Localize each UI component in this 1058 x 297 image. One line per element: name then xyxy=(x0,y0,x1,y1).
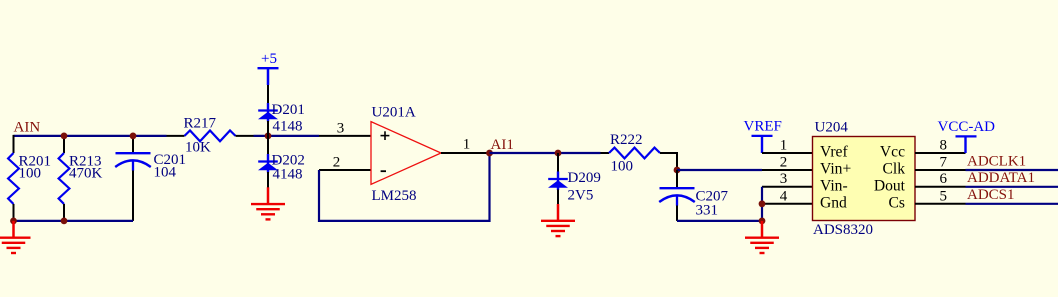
wire AIN net segment xyxy=(14,135,167,137)
svg-text:Vcc: Vcc xyxy=(880,144,905,161)
capacitor C201 bottom pin xyxy=(132,171,134,221)
svg-text:4148: 4148 xyxy=(273,167,303,183)
svg-text:Vin-: Vin- xyxy=(820,178,848,195)
svg-text:4148: 4148 xyxy=(273,118,303,134)
diode D202 xyxy=(267,154,269,173)
svg-text:7: 7 xyxy=(940,154,948,170)
svg-text:2: 2 xyxy=(780,154,788,170)
diode D201 bottom pin xyxy=(267,121,269,136)
capacitor C207 xyxy=(660,187,695,189)
chip pin 7 stub xyxy=(915,169,966,171)
power port +5 xyxy=(258,67,279,69)
ground below D209 xyxy=(557,204,560,221)
svg-text:Dout: Dout xyxy=(874,178,906,195)
junction at D209 xyxy=(555,150,562,157)
junction pin4 xyxy=(759,200,766,207)
op-amp plus sign xyxy=(381,135,390,137)
power port VCC-AD xyxy=(956,135,977,137)
svg-text:ADCLK1: ADCLK1 xyxy=(967,153,1026,169)
svg-text:6: 6 xyxy=(940,171,948,187)
diode D202 top pin xyxy=(267,136,269,155)
power port VREF xyxy=(752,135,773,137)
svg-text:VCC-AD: VCC-AD xyxy=(938,119,996,135)
wire junction to pin Vin+ xyxy=(677,169,762,171)
capacitor C201 xyxy=(116,152,151,154)
svg-text:3: 3 xyxy=(337,120,345,136)
svg-text:ADCS1: ADCS1 xyxy=(967,187,1015,203)
resistor R201 top pin xyxy=(13,135,15,153)
wire R217 to op-amp pin3 xyxy=(254,135,320,137)
svg-text:R222: R222 xyxy=(610,132,643,148)
wire VCC-AD to pin8 xyxy=(964,136,966,153)
svg-text:Gnd: Gnd xyxy=(820,195,847,212)
svg-text:331: 331 xyxy=(696,202,719,218)
resistor R213 xyxy=(59,153,70,204)
wire ADCLK1 xyxy=(966,169,1058,171)
ground at ADC xyxy=(761,221,764,238)
junction at op-amp output xyxy=(486,150,493,157)
junction gnd node xyxy=(759,218,766,225)
op-amp U201A pin 2 stub xyxy=(319,169,371,171)
svg-text:100: 100 xyxy=(19,165,42,181)
resistor R222 right pin xyxy=(660,152,677,154)
svg-text:1: 1 xyxy=(463,136,471,152)
svg-text:5: 5 xyxy=(940,188,948,204)
resistor R217 left pin xyxy=(167,135,185,137)
wire ADCS1 xyxy=(966,203,1058,205)
svg-text:2V5: 2V5 xyxy=(568,187,594,203)
wire VREF to pin1 xyxy=(761,136,763,153)
svg-text:ADS8320: ADS8320 xyxy=(813,222,873,238)
capacitor C207 top pin xyxy=(676,170,678,187)
svg-text:10K: 10K xyxy=(185,140,211,156)
IC U204 body xyxy=(813,137,916,221)
chip pin 3 stub xyxy=(762,186,813,188)
svg-text:+5: +5 xyxy=(261,51,277,67)
junction at diode column xyxy=(265,133,272,140)
wire C207 bottom to gnd node xyxy=(677,220,762,222)
diode D201 top pin xyxy=(267,85,269,104)
power +5 stub xyxy=(267,68,270,85)
junction R222/C207 xyxy=(674,167,681,174)
svg-text:ADDATA1: ADDATA1 xyxy=(967,170,1035,186)
diode D201 xyxy=(267,103,269,122)
wire ADDATA1 xyxy=(966,186,1058,188)
chip pin 6 stub xyxy=(915,186,966,188)
svg-text:D201: D201 xyxy=(272,102,305,118)
chip pin 8 stub xyxy=(915,152,966,154)
resistor R213 top pin xyxy=(63,136,65,153)
feedback wire xyxy=(319,153,490,221)
wire pin3 to pin4 to ground xyxy=(761,187,763,221)
svg-text:104: 104 xyxy=(154,165,177,181)
diode D209 zener xyxy=(557,172,559,191)
svg-text:R217: R217 xyxy=(184,115,217,131)
wire output to R222 xyxy=(490,152,601,154)
junction at R213 top xyxy=(61,133,68,140)
chip pin 2 stub xyxy=(762,169,813,171)
op-amp U201A pin 3 stub xyxy=(319,135,371,137)
svg-text:LM258: LM258 xyxy=(372,188,417,204)
svg-text:Cs: Cs xyxy=(889,195,905,212)
resistor R201 bottom pin xyxy=(13,204,15,221)
svg-text:470K: 470K xyxy=(69,165,103,181)
capacitor C201 top pin xyxy=(132,136,134,152)
svg-text:U204: U204 xyxy=(815,120,849,136)
junction at R201 bottom xyxy=(10,218,17,225)
chip pin 4 stub xyxy=(762,203,813,205)
ground left xyxy=(12,221,15,238)
op-amp output pin 1 stub xyxy=(441,152,490,154)
resistor R217 xyxy=(185,131,236,142)
svg-text:8: 8 xyxy=(940,137,948,153)
svg-text:4: 4 xyxy=(780,188,788,204)
op-amp minus sign xyxy=(381,170,386,172)
wire R222 corner down xyxy=(676,152,678,170)
diode D209 bottom pin xyxy=(557,190,559,205)
svg-text:U201A: U201A xyxy=(372,104,416,120)
svg-text:VREF: VREF xyxy=(744,119,782,135)
svg-text:Clk: Clk xyxy=(882,161,905,178)
svg-text:2: 2 xyxy=(333,155,341,171)
svg-text:D209: D209 xyxy=(568,170,601,186)
resistor R222 xyxy=(609,148,660,159)
svg-text:1: 1 xyxy=(780,137,788,153)
junction at R213 bottom xyxy=(61,218,68,225)
svg-text:100: 100 xyxy=(611,158,634,174)
resistor R213 bottom pin xyxy=(63,204,65,221)
op-amp U201A triangle xyxy=(371,122,441,185)
capacitor C207 bottom pin xyxy=(676,206,678,221)
resistor R201 xyxy=(8,153,19,204)
junction at C201 top xyxy=(130,133,137,140)
diode D202 bottom pin xyxy=(267,172,269,188)
chip pin 1 stub xyxy=(762,152,813,154)
resistor R222 left pin xyxy=(601,152,610,154)
svg-text:Vref: Vref xyxy=(820,144,848,161)
ground below D202 xyxy=(267,187,270,204)
bottom rail wire left xyxy=(13,220,134,222)
svg-text:3: 3 xyxy=(780,171,788,187)
svg-text:Vin+: Vin+ xyxy=(820,161,851,178)
svg-text:AI1: AI1 xyxy=(491,137,514,153)
resistor R217 right pin xyxy=(236,135,254,137)
svg-text:AIN: AIN xyxy=(14,120,41,136)
diode D209 top pin xyxy=(557,153,559,172)
chip pin 5 stub xyxy=(915,203,966,205)
